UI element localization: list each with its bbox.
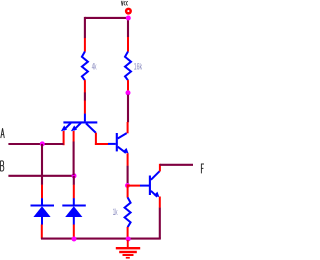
resistor R1 4k body bbox=[82, 52, 88, 81]
svg-text:1k: 1k bbox=[113, 208, 118, 218]
transistor Q1 base lead bbox=[84, 114, 86, 122]
junction dot below R2 bbox=[126, 90, 131, 95]
diode D2 cathode lead bbox=[73, 198, 75, 205]
junction dot at VCC bbox=[126, 16, 131, 21]
transistor Q1 base bar bbox=[63, 121, 97, 123]
junction dot on A line bbox=[40, 141, 45, 146]
transistor Q1 base pin bbox=[84, 101, 86, 114]
transistor Q2 collector lead bbox=[118, 133, 127, 138]
resistor R2 16k pin top bbox=[127, 37, 129, 52]
label 1k bbox=[113, 208, 118, 218]
wire input A line bbox=[8, 143, 63, 145]
label 16k bbox=[134, 61, 142, 72]
junction dot bus at D2 bbox=[72, 237, 77, 242]
transistor Q3 emitter lead bbox=[151, 191, 157, 197]
node A label bbox=[1, 128, 5, 138]
diode D1 triangle bbox=[33, 206, 50, 217]
junction dot bus at ground bbox=[126, 237, 131, 242]
transistor Q1 emitter2 arrowhead bbox=[71, 125, 77, 131]
resistor R2 16k pin bottom bbox=[127, 80, 129, 91]
transistor Q3 base bar bbox=[149, 176, 151, 196]
diode D2 triangle bbox=[65, 206, 82, 217]
transistor Q2 emitter pin bbox=[127, 153, 129, 166]
diode D2 anode lead bbox=[73, 217, 75, 225]
diode D2 pin top bbox=[73, 185, 75, 199]
resistor R1 4k pin bottom bbox=[84, 80, 86, 93]
transistor Q1 emitter1 arrowhead bbox=[61, 125, 67, 131]
diode D1 cathode bar bbox=[31, 204, 55, 206]
wire ground bus bbox=[41, 238, 161, 240]
wire Q1 collector to Q2 base (red link) bbox=[95, 143, 108, 145]
resistor R3 1k pin bottom bbox=[127, 227, 129, 239]
transistor Q1 collector pin bbox=[95, 133, 97, 145]
wire R1 top vertical bbox=[84, 17, 86, 38]
diode D1 cathode lead bbox=[41, 198, 43, 205]
diode D2 pin bottom bbox=[73, 225, 75, 239]
transistor Q1 emitter2 lead bbox=[74, 123, 81, 130]
svg-text:4k: 4k bbox=[92, 62, 97, 72]
wire junction to Q3 base (red link) bbox=[129, 185, 141, 187]
diode D1 pin bottom bbox=[41, 225, 43, 239]
wire R2 top vertical bbox=[127, 18, 129, 37]
label 4k bbox=[92, 62, 97, 72]
transistor Q2 base lead bbox=[108, 143, 116, 145]
transistor Q2 collector pin bbox=[127, 122, 129, 133]
ground symbol bar3 bbox=[123, 254, 134, 256]
resistor R2 16k body bbox=[125, 52, 131, 81]
wire input B line bbox=[8, 175, 74, 177]
wire A column down to D1 bbox=[41, 144, 43, 185]
junction dot on B line bbox=[72, 173, 77, 178]
transistor Q1 emitter1 lead bbox=[64, 123, 71, 130]
wire Q3 emitter down to ground bus bbox=[159, 208, 161, 239]
transistor Q1 emitter2 pin bbox=[73, 131, 75, 142]
junction dot Q2 emitter node bbox=[125, 183, 130, 188]
node B label bbox=[0, 161, 3, 171]
transistor Q3 collector lead bbox=[151, 171, 160, 180]
transistor Q1 emitter1 pin bbox=[63, 131, 65, 145]
ground symbol bar4 bbox=[126, 257, 130, 259]
node F label bbox=[201, 164, 204, 173]
transistor Q2 emitter lead bbox=[118, 147, 126, 153]
transistor Q2 emitter arrowhead bbox=[123, 148, 129, 154]
wire Q2 emitter down to junction bbox=[127, 166, 129, 185]
resistor R3 1k pin top bbox=[127, 184, 129, 197]
wire output F line bbox=[160, 164, 193, 166]
svg-text:16k: 16k bbox=[134, 61, 142, 72]
transistor Q3 emitter arrowhead bbox=[154, 192, 160, 198]
resistor R3 1k body bbox=[125, 197, 131, 227]
resistor R1 4k pin top bbox=[84, 38, 86, 52]
wire R2 bottom to Q2 collector bbox=[127, 95, 129, 123]
transistor Q3 collector pin bbox=[159, 164, 161, 172]
ground symbol stub bbox=[127, 240, 129, 247]
transistor Q2 base bar bbox=[116, 133, 118, 151]
diode D2 cathode bar bbox=[62, 204, 86, 206]
ground symbol bar1 bbox=[116, 247, 140, 249]
node VCC label bbox=[121, 1, 128, 6]
power symbol VCC bbox=[125, 8, 132, 15]
transistor Q3 base lead bbox=[140, 185, 149, 187]
diode D1 pin top bbox=[41, 185, 43, 199]
wire R1 bottom to Q1 base bbox=[84, 92, 86, 100]
transistor Q3 emitter pin bbox=[159, 197, 161, 208]
wire Q1 emitter2 down to B line and D2 bbox=[73, 142, 75, 176]
diode D1 anode lead bbox=[41, 217, 43, 225]
wire top bus from R1 to VCC bbox=[85, 17, 128, 19]
ground symbol bar2 bbox=[119, 251, 137, 253]
transistor Q1 collector lead bbox=[86, 123, 96, 132]
